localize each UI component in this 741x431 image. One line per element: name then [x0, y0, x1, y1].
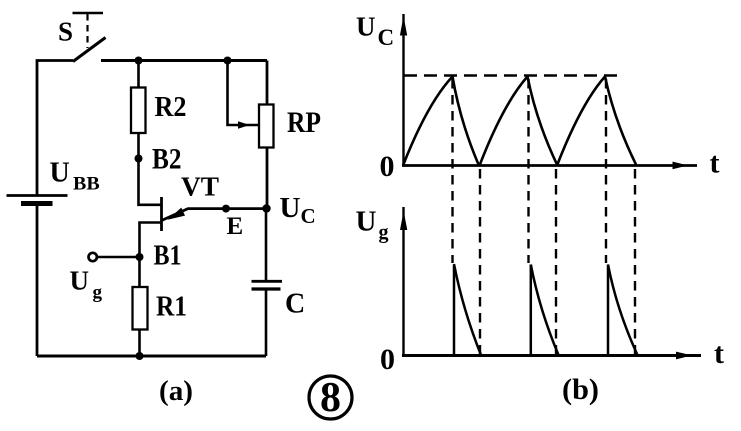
- node B2 junction dot: [135, 155, 143, 163]
- Ug chart y-axis: [400, 207, 407, 356]
- svg-text:S: S: [58, 17, 73, 47]
- switch S label: [58, 17, 73, 47]
- wire: RP branch down from top rail: [266, 61, 269, 106]
- UC fall curve 2: [528, 77, 558, 165]
- node UC junction dot: [262, 204, 270, 212]
- svg-text:U: U: [356, 12, 376, 42]
- UC rise curve 3: [557, 77, 605, 166]
- Ug chart origin 0: [380, 343, 395, 376]
- junction dot at R1 bottom on rail: [136, 352, 144, 360]
- wire: R1 bottom to ground rail: [138, 330, 141, 357]
- dashed timing line at peak 2: [527, 79, 529, 263]
- UC rise curve 2: [480, 77, 528, 166]
- svg-text:U: U: [50, 158, 70, 189]
- UC fall curve 1: [453, 77, 479, 165]
- svg-text:E: E: [227, 213, 244, 240]
- Ug spike 3 decay: [608, 265, 638, 356]
- svg-text:VT: VT: [181, 172, 219, 202]
- wire: RP bottom to node UC: [266, 148, 269, 209]
- dashed timing line at peak 1: [451, 79, 453, 263]
- input Ug label: [70, 266, 103, 304]
- svg-text:B1: B1: [154, 241, 182, 272]
- Ug chart t label: [714, 337, 724, 370]
- wire: VT base-one left and down to resistor R1: [140, 223, 162, 288]
- Ug spike 1 decay: [454, 264, 481, 355]
- ground rail wire: [37, 355, 266, 358]
- wire: node UC down to capacitor C: [265, 209, 268, 282]
- dashed timing line at reset 3: [634, 169, 636, 355]
- Ug spike 2 rise: [530, 265, 533, 356]
- UC chart y-axis: [400, 14, 407, 166]
- switch S dashed actuator link: [86, 14, 88, 48]
- switch S top bar: [73, 12, 104, 15]
- UC chart t label: [710, 147, 720, 180]
- capacitor C label: [285, 289, 305, 320]
- dashed timing line at reset 1: [479, 169, 481, 355]
- svg-text:g: g: [379, 222, 389, 244]
- svg-text:R1: R1: [156, 291, 187, 323]
- potentiometer RP wiper arm: [228, 61, 260, 129]
- UC rise curve 1: [403, 77, 453, 166]
- node E junction dot: [222, 205, 230, 213]
- figure number 8 circled: [309, 375, 352, 421]
- UC chart x-axis: [402, 162, 697, 170]
- svg-text:C: C: [378, 25, 395, 50]
- Ug spike 1 rise: [453, 265, 456, 356]
- svg-text:B2: B2: [152, 143, 182, 176]
- svg-text:BB: BB: [73, 174, 100, 195]
- svg-text:U: U: [70, 266, 90, 296]
- node UC label: [280, 192, 316, 228]
- switch S blade: [73, 38, 106, 62]
- transistor VT emitter arrowhead: [168, 208, 186, 220]
- capacitor C bottom plate: [252, 287, 281, 290]
- Ug spike 2 decay: [531, 265, 559, 356]
- potentiometer RP body: [259, 105, 274, 148]
- svg-text:(b): (b): [562, 373, 599, 406]
- svg-text:8: 8: [320, 375, 341, 421]
- junction dot at RP wiper tap: [224, 57, 232, 65]
- potentiometer RP label: [287, 106, 321, 139]
- node B1 label: [154, 241, 182, 272]
- svg-text:C: C: [301, 204, 316, 228]
- svg-text:t: t: [714, 337, 724, 370]
- junction dot at R2 top: [135, 57, 143, 65]
- svg-text:(a): (a): [159, 375, 193, 407]
- wire: battery positive up and to switch left contact: [37, 61, 73, 197]
- svg-text:t: t: [710, 147, 720, 180]
- svg-text:RP: RP: [287, 106, 321, 139]
- label (a): [159, 375, 193, 407]
- svg-text:U: U: [280, 192, 301, 224]
- resistor R1: [133, 287, 148, 330]
- svg-text:g: g: [93, 282, 103, 303]
- UC peak level dashed line: [404, 74, 621, 77]
- node B1 junction dot: [136, 253, 144, 261]
- wire: top rail down to R2: [137, 61, 140, 89]
- resistor R2 label: [155, 91, 187, 123]
- node E label: [227, 213, 244, 240]
- resistor R1 label: [156, 291, 187, 323]
- Ug chart axis label: [356, 206, 389, 244]
- wire: top rail from switch to RP branch: [101, 59, 267, 62]
- UC chart axis label: [356, 12, 394, 51]
- wire: R2 bottom through node B2 to VT base-two: [139, 133, 161, 205]
- Ug chart x-axis: [402, 352, 701, 360]
- label (b): [562, 373, 599, 406]
- battery UBB negative plate: [21, 201, 53, 206]
- dashed timing line at reset 2: [555, 169, 557, 355]
- transistor VT base bar: [160, 197, 163, 231]
- node B2 label: [152, 143, 182, 176]
- transistor VT label: [181, 172, 219, 202]
- transistor VT emitter lead: [162, 209, 267, 221]
- input terminal Ug circle: [89, 253, 97, 261]
- svg-text:0: 0: [380, 343, 395, 376]
- wire: capacitor C down to ground rail: [265, 289, 268, 356]
- svg-text:U: U: [356, 206, 377, 238]
- UC fall curve 3: [605, 77, 636, 165]
- dashed timing line at peak 3: [605, 79, 607, 263]
- UC chart origin 0: [380, 150, 395, 183]
- wire: Ug terminal to node B1: [98, 256, 140, 259]
- svg-text:R2: R2: [155, 91, 187, 123]
- capacitor C top plate: [252, 280, 283, 283]
- battery UBB label: [50, 158, 101, 195]
- battery UBB positive plate: [7, 194, 68, 197]
- Ug spike 3 rise: [607, 265, 610, 356]
- svg-text:0: 0: [380, 150, 395, 183]
- resistor R2: [131, 88, 146, 134]
- svg-text:C: C: [285, 289, 305, 320]
- wire: battery negative down to ground rail: [36, 204, 39, 357]
